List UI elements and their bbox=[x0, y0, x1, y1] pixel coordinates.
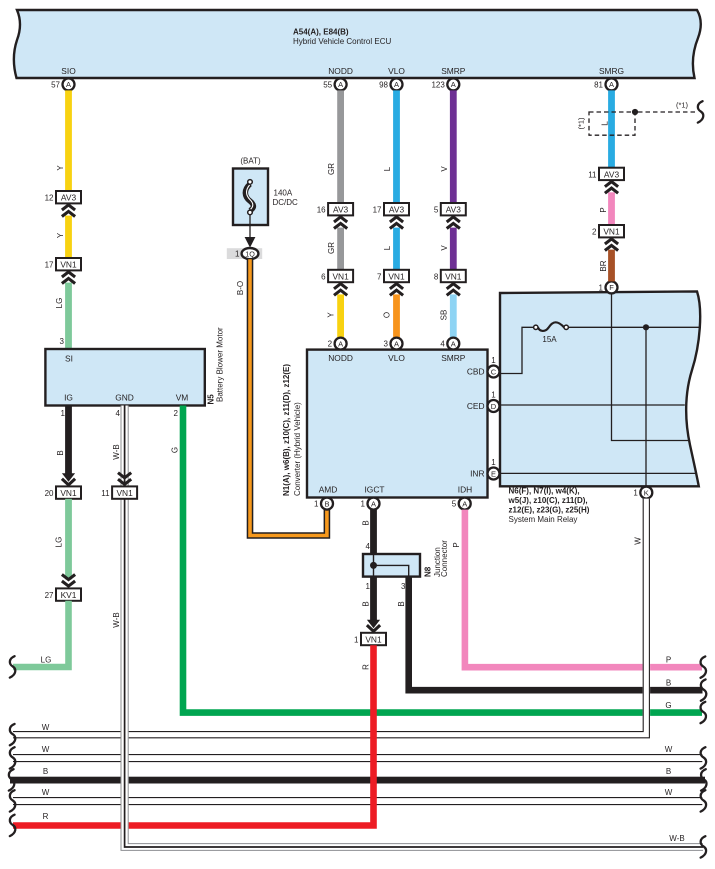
svg-text:AV3: AV3 bbox=[61, 193, 77, 203]
SMR internal wire INR row bbox=[500, 472, 695, 474]
svg-text:B-O: B-O bbox=[236, 281, 245, 295]
svg-text:4: 4 bbox=[366, 542, 371, 551]
pin 98 (A) of VLO bbox=[379, 78, 402, 90]
wire V from SMRP bbox=[440, 90, 457, 203]
pin 81 (A) of SMRG bbox=[594, 78, 617, 90]
svg-text:L: L bbox=[383, 245, 392, 250]
svg-text:B: B bbox=[43, 767, 48, 776]
svg-text:B: B bbox=[666, 767, 671, 776]
svg-text:Y: Y bbox=[327, 312, 336, 318]
wire G from VM pin 2 to right edge bbox=[171, 406, 706, 724]
svg-text:Y: Y bbox=[56, 165, 65, 171]
wire W-B from GND pin 4 to right edge bbox=[112, 406, 706, 858]
connector 17 VN1 bbox=[45, 258, 81, 284]
svg-text:GND: GND bbox=[115, 393, 134, 403]
svg-text:AV3: AV3 bbox=[333, 205, 349, 215]
svg-text:System Main Relay: System Main Relay bbox=[509, 515, 578, 524]
svg-text:IDH: IDH bbox=[458, 485, 472, 495]
svg-text:1: 1 bbox=[361, 500, 366, 509]
svg-text:SMRG: SMRG bbox=[599, 66, 624, 76]
connector 7 VN1 bbox=[377, 270, 409, 296]
wire from fuse to 1Q with arrow bbox=[245, 215, 256, 248]
converter pin 1 (E) INR bbox=[488, 458, 500, 480]
svg-text:SIO: SIO bbox=[61, 66, 76, 76]
svg-text:W: W bbox=[42, 788, 50, 797]
wire Y from SIO 57 bbox=[56, 90, 72, 191]
svg-text:(*1): (*1) bbox=[577, 117, 586, 130]
svg-text:SI: SI bbox=[65, 354, 73, 364]
svg-text:VN1: VN1 bbox=[445, 272, 462, 282]
svg-text:P: P bbox=[452, 542, 461, 547]
svg-text:11: 11 bbox=[588, 170, 597, 179]
svg-text:7: 7 bbox=[377, 273, 382, 282]
svg-text:VLO: VLO bbox=[388, 353, 405, 363]
svg-text:1Q: 1Q bbox=[245, 249, 255, 258]
wire Y into converter pin 2 bbox=[327, 294, 344, 337]
wire W from SMR pin K to left edge bbox=[10, 499, 650, 746]
svg-text:B: B bbox=[397, 601, 406, 606]
svg-text:(*1): (*1) bbox=[676, 101, 689, 110]
svg-text:Y: Y bbox=[56, 232, 65, 238]
connector 27 KV1 bbox=[45, 588, 81, 600]
svg-text:5: 5 bbox=[434, 206, 439, 215]
svg-text:SMRP: SMRP bbox=[441, 66, 466, 76]
svg-text:W: W bbox=[665, 745, 673, 754]
svg-text:1: 1 bbox=[633, 489, 638, 498]
svg-text:VM: VM bbox=[176, 393, 189, 403]
svg-text:SB: SB bbox=[439, 310, 448, 321]
wire LG to left edge bbox=[10, 601, 69, 678]
svg-text:VN1: VN1 bbox=[116, 488, 133, 498]
svg-text:Battery Blower Motor: Battery Blower Motor bbox=[216, 327, 225, 402]
svg-text:E: E bbox=[491, 469, 496, 478]
svg-text:IGCT: IGCT bbox=[364, 485, 384, 495]
svg-text:V: V bbox=[440, 245, 449, 251]
connector 6 VN1 bbox=[321, 270, 353, 296]
SI pin numbers 1 / 4 / 2 bbox=[61, 409, 179, 418]
svg-text:G: G bbox=[171, 447, 180, 453]
svg-text:1: 1 bbox=[491, 458, 496, 467]
wire SB into converter pin 4 bbox=[439, 294, 456, 337]
svg-text:z12(E), z23(G), z25(H): z12(E), z23(G), z25(H) bbox=[509, 506, 590, 515]
svg-text:N5: N5 bbox=[207, 394, 216, 405]
connector 17 AV3 bbox=[373, 203, 409, 229]
SMR caption bbox=[508, 487, 590, 525]
svg-text:55: 55 bbox=[323, 80, 332, 89]
svg-text:98: 98 bbox=[379, 80, 388, 89]
svg-text:A: A bbox=[462, 499, 467, 508]
connector 2 VN1 bbox=[592, 225, 624, 251]
svg-text:3: 3 bbox=[384, 340, 389, 349]
svg-text:G: G bbox=[665, 701, 671, 710]
SMR internal wire from F bbox=[612, 294, 689, 441]
wire GR below AV3 bbox=[327, 228, 344, 270]
svg-text:R: R bbox=[43, 812, 49, 821]
wire R from 1 VN1 to left edge bbox=[10, 645, 374, 836]
svg-text:A: A bbox=[394, 80, 399, 89]
converter pin 1 (C) CBD bbox=[488, 356, 500, 378]
junction connector N8 bbox=[363, 540, 449, 577]
converter pin 5 (A) IDH bbox=[452, 498, 471, 510]
wire L below AV3 bbox=[383, 228, 400, 270]
svg-text:57: 57 bbox=[51, 80, 60, 89]
pin 55 (A) of NODD bbox=[323, 78, 346, 90]
svg-text:123: 123 bbox=[431, 80, 445, 89]
svg-text:4: 4 bbox=[116, 409, 121, 418]
wire GR from NODD bbox=[327, 90, 344, 203]
svg-text:N1(A), w6(B), z10(C), z11(D),: N1(A), w6(B), z10(C), z11(D), z12(E) bbox=[282, 364, 291, 496]
svg-text:GR: GR bbox=[327, 163, 336, 175]
svg-text:A: A bbox=[371, 499, 376, 508]
svg-text:3: 3 bbox=[401, 582, 406, 591]
svg-text:VN1: VN1 bbox=[388, 272, 405, 282]
shield dashed drain wire bbox=[638, 101, 703, 123]
svg-text:N8: N8 bbox=[424, 566, 433, 577]
pin 2 (A) converter top bbox=[328, 338, 347, 350]
svg-text:VN1: VN1 bbox=[60, 488, 77, 498]
pin 123 (A) of SMRP bbox=[431, 78, 459, 90]
svg-text:NODD: NODD bbox=[328, 66, 353, 76]
svg-text:Hybrid Vehicle Control ECU: Hybrid Vehicle Control ECU bbox=[293, 37, 391, 46]
ECU A54(A)/E84(B) Hybrid Vehicle Control ECU banner bbox=[14, 10, 701, 78]
svg-text:27: 27 bbox=[45, 591, 54, 600]
svg-text:Converter (Hybrid Vehicle): Converter (Hybrid Vehicle) bbox=[293, 402, 302, 496]
connector 12 AV3 bbox=[45, 191, 81, 217]
converter pin 1 (D) CED bbox=[488, 391, 500, 413]
svg-text:W: W bbox=[42, 723, 50, 732]
svg-text:20: 20 bbox=[45, 489, 54, 498]
svg-text:A: A bbox=[609, 80, 614, 89]
svg-text:12: 12 bbox=[45, 194, 54, 203]
svg-text:O: O bbox=[383, 312, 392, 318]
svg-text:2: 2 bbox=[328, 340, 333, 349]
svg-text:VN1: VN1 bbox=[60, 260, 77, 270]
pin 4 (A) converter top bbox=[440, 338, 459, 350]
wire B below N8 to 1 VN1 bbox=[370, 577, 377, 621]
svg-text:11: 11 bbox=[101, 489, 110, 498]
shielded (*1) dashed box bbox=[577, 112, 636, 135]
SMR internal wire fuse to right edge bbox=[568, 326, 701, 328]
svg-text:L: L bbox=[383, 166, 392, 171]
svg-text:1: 1 bbox=[491, 356, 496, 365]
svg-text:CED: CED bbox=[467, 401, 485, 411]
wire BR to SMR pin F bbox=[599, 250, 615, 282]
svg-text:VN1: VN1 bbox=[603, 227, 620, 237]
system main relay box bbox=[500, 291, 700, 486]
svg-text:W: W bbox=[634, 537, 643, 545]
svg-text:15A: 15A bbox=[542, 335, 557, 344]
wire B from IG pin 1 bbox=[56, 406, 75, 485]
svg-text:B: B bbox=[362, 520, 371, 525]
svg-text:A: A bbox=[451, 339, 456, 348]
svg-text:P: P bbox=[599, 207, 608, 212]
svg-text:B: B bbox=[362, 601, 371, 606]
svg-text:KV1: KV1 bbox=[61, 590, 77, 600]
wire Y below 12 AV3 bbox=[56, 216, 72, 258]
svg-text:C: C bbox=[491, 367, 497, 376]
svg-text:P: P bbox=[666, 656, 671, 665]
W-B chevron and 11 VN1 bbox=[101, 473, 137, 499]
svg-text:N6(F), N7(I), w4(K),: N6(F), N7(I), w4(K), bbox=[509, 487, 580, 496]
wire L from SMRG 81 bbox=[608, 90, 615, 167]
svg-text:AV3: AV3 bbox=[446, 205, 462, 215]
svg-text:V: V bbox=[440, 166, 449, 172]
SMR pin 1 (K) bbox=[633, 487, 652, 499]
svg-text:W: W bbox=[42, 745, 50, 754]
svg-text:VN1: VN1 bbox=[365, 635, 382, 645]
N8 pin numbers 1 and 3 bbox=[366, 582, 407, 591]
pin 57 (A) of SIO bbox=[51, 78, 74, 90]
pin 3 (A) converter top bbox=[384, 338, 403, 350]
wire P to 2 VN1 bbox=[599, 192, 615, 225]
svg-text:VN1: VN1 bbox=[332, 272, 349, 282]
svg-text:1: 1 bbox=[235, 250, 240, 259]
fuse 15A bbox=[534, 322, 569, 344]
svg-text:8: 8 bbox=[434, 273, 439, 282]
svg-text:Connector: Connector bbox=[440, 540, 449, 577]
svg-text:R: R bbox=[362, 664, 371, 670]
svg-text:5: 5 bbox=[452, 500, 457, 509]
svg-text:w5(J), z10(C), z11(D),: w5(J), z10(C), z11(D), bbox=[508, 496, 588, 505]
svg-text:17: 17 bbox=[373, 206, 382, 215]
svg-text:INR: INR bbox=[470, 469, 484, 479]
wire W bus (third) bbox=[10, 788, 706, 812]
svg-text:D: D bbox=[491, 402, 497, 411]
wire V below AV3 bbox=[440, 228, 457, 270]
svg-text:1: 1 bbox=[314, 500, 319, 509]
svg-text:AV3: AV3 bbox=[389, 205, 405, 215]
svg-text:NODD: NODD bbox=[328, 353, 353, 363]
svg-text:A: A bbox=[394, 339, 399, 348]
svg-text:LG: LG bbox=[41, 656, 52, 665]
connector 20 VN1 bbox=[45, 486, 81, 498]
svg-text:A54(A), E84(B): A54(A), E84(B) bbox=[293, 28, 349, 37]
svg-text:A: A bbox=[338, 339, 343, 348]
N8 internal branch to pin 3 bbox=[374, 565, 409, 576]
svg-text:6: 6 bbox=[321, 273, 326, 282]
svg-text:3: 3 bbox=[60, 337, 65, 346]
svg-text:A: A bbox=[338, 80, 343, 89]
N8 junction dot bbox=[370, 562, 377, 569]
svg-text:W-B: W-B bbox=[112, 444, 121, 459]
svg-text:L: L bbox=[600, 121, 610, 126]
converter pin 1 (B) AMD bbox=[314, 498, 333, 510]
svg-text:B: B bbox=[666, 679, 671, 688]
wire LG below 20 VN1 bbox=[55, 499, 76, 586]
svg-text:VLO: VLO bbox=[388, 66, 405, 76]
svg-text:B: B bbox=[324, 499, 329, 508]
svg-text:BR: BR bbox=[599, 260, 608, 271]
wire B from N8 pin 3 to right edge bbox=[397, 577, 706, 701]
svg-text:LG: LG bbox=[55, 298, 64, 309]
wire LG into SI pin 3 bbox=[55, 283, 72, 349]
converter pin 1 (A) IGCT bbox=[361, 498, 380, 510]
connector 1 VN1 bbox=[354, 633, 386, 645]
wire P from IDH to right edge bbox=[452, 510, 706, 678]
SMR internal wiring from CBD bbox=[500, 327, 534, 373]
fusible link 140A DC/DC (BAT) bbox=[233, 157, 298, 226]
svg-text:2: 2 bbox=[174, 409, 179, 418]
svg-text:A: A bbox=[451, 80, 456, 89]
svg-text:CBD: CBD bbox=[467, 367, 485, 377]
svg-text:A: A bbox=[66, 80, 71, 89]
wire B from IGCT bbox=[362, 510, 377, 554]
svg-text:140A: 140A bbox=[274, 189, 293, 198]
shield junction dot bbox=[632, 109, 638, 115]
svg-text:AMD: AMD bbox=[319, 485, 338, 495]
connector 11 AV3 bbox=[588, 168, 624, 194]
svg-text:16: 16 bbox=[317, 206, 326, 215]
svg-text:(BAT): (BAT) bbox=[240, 157, 261, 166]
SMR internal wire CED row bbox=[500, 404, 685, 406]
connector 5 AV3 bbox=[434, 203, 466, 229]
svg-text:W: W bbox=[665, 788, 673, 797]
svg-text:1: 1 bbox=[491, 391, 496, 400]
wire B bus (thick) bbox=[9, 767, 707, 791]
svg-text:B: B bbox=[56, 450, 65, 455]
battery blower motor N5 (SI box) bbox=[45, 327, 224, 406]
svg-text:4: 4 bbox=[440, 340, 445, 349]
connector 8 VN1 bbox=[434, 270, 466, 296]
svg-text:W-B: W-B bbox=[669, 834, 684, 843]
converter (hybrid vehicle) N1 box bbox=[282, 350, 488, 498]
wire B label and chevron to 1 VN1 bbox=[362, 601, 381, 631]
svg-text:SMRP: SMRP bbox=[441, 353, 466, 363]
SMR internal wire to K bbox=[645, 327, 647, 486]
SMR pin 1 (F) bbox=[599, 281, 618, 293]
svg-text:1: 1 bbox=[354, 636, 359, 645]
svg-text:DC/DC: DC/DC bbox=[273, 198, 299, 207]
svg-text:K: K bbox=[644, 488, 649, 497]
svg-text:1: 1 bbox=[61, 409, 66, 418]
svg-text:81: 81 bbox=[594, 80, 603, 89]
wire B-O from 1Q to AMD bbox=[236, 259, 327, 535]
svg-text:IG: IG bbox=[64, 393, 73, 403]
svg-text:AV3: AV3 bbox=[604, 169, 620, 179]
wire O into converter pin 3 bbox=[383, 294, 400, 337]
svg-text:GR: GR bbox=[327, 242, 336, 254]
svg-text:LG: LG bbox=[55, 537, 64, 548]
wire L from VLO bbox=[383, 90, 400, 203]
connector 16 AV3 bbox=[317, 203, 353, 229]
junction dot bbox=[643, 324, 649, 330]
svg-text:2: 2 bbox=[592, 228, 597, 237]
svg-text:1: 1 bbox=[366, 582, 371, 591]
svg-text:17: 17 bbox=[45, 261, 54, 270]
wire B through N8 (thin inside box) bbox=[373, 554, 375, 577]
connector 1 (1Q) bbox=[227, 248, 262, 259]
svg-text:W-B: W-B bbox=[112, 612, 121, 627]
wire W bus (second) bbox=[10, 745, 706, 769]
svg-text:F: F bbox=[609, 283, 614, 292]
svg-text:1: 1 bbox=[599, 283, 604, 292]
